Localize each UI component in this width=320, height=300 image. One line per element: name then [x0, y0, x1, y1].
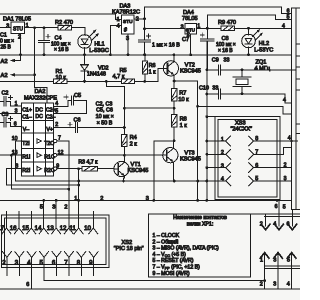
svg-text:3: 3	[52, 204, 55, 210]
wire bottom rail	[0, 288, 300, 290]
svg-text:2: 2	[2, 260, 6, 267]
capacitor C8	[206, 28, 208, 38]
XP1 pin 4 arrow	[278, 200, 280, 226]
wire DA4 out +5V	[197, 27, 222, 29]
svg-text:78L05: 78L05	[182, 16, 198, 22]
wire branch to DD1 pin	[198, 106, 292, 114]
wire DA2 pin7 drop	[54, 139, 57, 142]
wire XS2 pin5 rail	[44, 275, 265, 280]
LED HL2	[247, 27, 250, 30]
wire XS3 pin7 net	[254, 147, 292, 154]
svg-text:“24CXX”: “24CXX”	[231, 126, 253, 132]
svg-text:5 – RESET (AVR): 5 – RESET (AVR)	[153, 258, 194, 264]
svg-text:2: 2	[187, 32, 190, 38]
wire DA2 pin10	[16, 141, 22, 181]
svg-text:A2: A2	[1, 73, 8, 79]
XS2 top contact 15	[30, 211, 32, 228]
svg-text:C5, C6: C5, C6	[96, 108, 113, 114]
XS2 top contact 17	[6, 211, 8, 228]
XS2 bottom contact 5	[40, 252, 45, 258]
XP1 pin 3 arrow	[274, 253, 283, 259]
svg-text:R7: R7	[179, 91, 186, 97]
svg-text:#: #	[124, 27, 127, 33]
wire R7 R8 node	[124, 107, 174, 109]
svg-text:R1I: R1I	[22, 155, 30, 161]
socket XS2 PIC 18 pin	[2, 215, 109, 267]
svg-text:V+: V+	[46, 127, 53, 133]
wire DA2 pin13	[0, 154, 21, 156]
svg-text:1 мк × 16 В: 1 мк × 16 В	[152, 42, 180, 48]
svg-text:R3 4,7 к: R3 4,7 к	[78, 160, 98, 166]
XS3 row 2/7 contacts	[207, 153, 226, 155]
XP1 pin 6 arrow	[291, 210, 293, 226]
wire VT1 base	[114, 168, 118, 170]
svg-text:L-53GC: L-53GC	[89, 48, 109, 54]
transistor VT1 KSC945	[114, 161, 129, 176]
svg-text:STU: STU	[13, 27, 23, 33]
svg-text:2: 2	[100, 196, 103, 202]
XS2 bottom contact 6	[52, 252, 57, 258]
svg-text:7 – VPP (PIC, +12 В): 7 – VPP (PIC, +12 В)	[153, 265, 201, 271]
wire XS2 pin4 drop	[31, 275, 33, 288]
wire DA2 pin12	[54, 154, 57, 157]
svg-text:KSC945: KSC945	[180, 157, 201, 163]
wire A2 branch	[34, 28, 36, 88]
svg-text:9: 9	[89, 260, 93, 267]
svg-text:STU: STU	[123, 19, 133, 25]
svg-text:33: 33	[224, 58, 230, 64]
transistor VT3 KSC945	[163, 148, 178, 163]
transistor VT2 KSC945	[145, 68, 168, 81]
svg-text:6: 6	[275, 204, 278, 210]
svg-text:R9 470: R9 470	[218, 20, 236, 26]
svg-text:DC: DC	[35, 107, 43, 113]
wire net1 drop	[78, 169, 80, 228]
XS2 bottom contact 2	[2, 252, 7, 258]
svg-text:2 – Общий: 2 – Общий	[153, 238, 179, 245]
svg-text:6: 6	[26, 282, 29, 288]
svg-text:4: 4	[273, 221, 276, 227]
svg-text:5: 5	[287, 257, 290, 263]
wire rail railB	[0, 199, 292, 201]
wire ground rail	[0, 54, 292, 56]
svg-text:6: 6	[14, 122, 17, 128]
svg-text:4: 4	[288, 136, 291, 142]
svg-text:R6: R6	[149, 63, 156, 69]
wire DA3 out +12V	[134, 18, 144, 20]
svg-text:3 – MISO (AVR), DATA (PIC): 3 – MISO (AVR), DATA (PIC)	[153, 246, 220, 252]
svg-text:4: 4	[282, 23, 285, 29]
wire +5V to pin5	[207, 15, 291, 28]
svg-text:3: 3	[284, 176, 287, 182]
svg-text:ZQ1: ZQ1	[256, 59, 267, 65]
wire XS3 pin8 net	[254, 140, 298, 142]
svg-text:C3: C3	[2, 112, 9, 118]
svg-text:6: 6	[52, 260, 56, 267]
capacitor C4	[43, 28, 45, 40]
svg-text:VT3: VT3	[184, 150, 194, 156]
svg-text:10: 10	[84, 225, 91, 232]
wire +12V input rail	[0, 14, 122, 19]
wire crystal net to XP	[242, 94, 292, 103]
wire DA3 pin4	[110, 25, 121, 55]
svg-text:C1+: C1+	[22, 107, 32, 113]
svg-text:4: 4	[283, 98, 286, 104]
XS2 top contact 13	[55, 211, 57, 228]
svg-text:17: 17	[0, 225, 5, 232]
svg-text:C2+: C2+	[46, 107, 56, 113]
svg-text:Назначение контактов: Назначение контактов	[173, 215, 227, 221]
resistor R4 2k	[123, 128, 125, 135]
svg-text:4 МГц: 4 МГц	[255, 66, 271, 72]
wire DA3 to DA4	[145, 19, 186, 29]
svg-text:2 к: 2 к	[130, 142, 138, 148]
IC DD1 cropped box	[292, 7, 301, 9]
XS2 bottom contact 4	[27, 252, 32, 258]
svg-text:2: 2	[64, 204, 67, 210]
svg-text:DC: DC	[35, 114, 43, 120]
svg-text:3: 3	[6, 23, 9, 29]
wire rail r2	[6, 169, 78, 185]
diode VD2 1N4148	[83, 53, 86, 56]
svg-text:2: 2	[260, 221, 263, 227]
svg-text:8: 8	[77, 260, 81, 267]
svg-text:вилки ХР1:: вилки ХР1:	[187, 221, 214, 227]
note box XP1 pinout	[149, 213, 300, 215]
svg-text:2: 2	[55, 122, 58, 128]
wire net5 drop to XS2 pin13	[55, 200, 57, 228]
svg-text:1 к: 1 к	[180, 123, 188, 129]
svg-text:“PIC 18 pin”: “PIC 18 pin”	[114, 246, 144, 252]
svg-text:3: 3	[15, 109, 18, 115]
svg-text:4: 4	[287, 281, 290, 287]
svg-text:4 – VCC (+5 В): 4 – VCC (+5 В)	[153, 252, 187, 258]
svg-text:2: 2	[260, 281, 263, 287]
svg-text:25 В: 25 В	[1, 44, 12, 50]
svg-text:1N4148: 1N4148	[87, 72, 106, 78]
svg-text:5: 5	[287, 15, 290, 21]
svg-text:× 50 В: × 50 В	[97, 120, 113, 126]
svg-text:4: 4	[221, 177, 224, 183]
svg-text:5: 5	[55, 109, 58, 115]
svg-text:2: 2	[221, 150, 224, 156]
svg-text:33: 33	[212, 85, 218, 91]
svg-text:7: 7	[64, 260, 68, 267]
svg-text:KSC945: KSC945	[128, 168, 149, 174]
net A2 lower arrow	[15, 74, 35, 76]
svg-text:3: 3	[221, 163, 224, 169]
svg-text:1: 1	[117, 17, 120, 23]
svg-text:R2I: R2I	[22, 168, 30, 174]
XS3 row 3/6 contacts	[207, 167, 226, 169]
XS3 row 1/8 contacts	[207, 140, 226, 142]
svg-text:16: 16	[10, 225, 17, 232]
svg-text:5: 5	[40, 204, 43, 210]
wire V+ dogleg	[106, 81, 124, 108]
svg-text:R8: R8	[180, 116, 187, 122]
svg-text:4: 4	[117, 23, 120, 29]
XS2 top contact 10	[92, 211, 94, 228]
svg-text:14: 14	[35, 225, 42, 232]
svg-text:VT1: VT1	[131, 162, 141, 168]
wire XS3 pin5 net	[254, 180, 292, 182]
svg-text:11: 11	[69, 225, 76, 232]
LED HL1	[84, 28, 86, 36]
svg-text:1: 1	[74, 196, 77, 202]
wire rail r1	[16, 180, 216, 182]
svg-text:1: 1	[15, 101, 18, 107]
XP1 pin 2 arrow	[265, 214, 267, 226]
XS2 bottom contact 8	[77, 252, 82, 258]
wire gnd vertical	[206, 41, 208, 200]
XS2 bottom contact 9	[89, 252, 94, 258]
wire net3 drop	[154, 141, 174, 201]
DD1 pin field dashes	[296, 43, 300, 45]
svg-text:C2–: C2–	[46, 114, 56, 120]
svg-text:3: 3	[181, 25, 184, 31]
wire DA2 pin9	[54, 167, 57, 170]
XS2 top contact 11	[78, 211, 80, 228]
net A2 upper arrow	[20, 34, 22, 61]
svg-text:3: 3	[273, 257, 276, 263]
svg-text:5: 5	[40, 260, 44, 267]
XS3 row 4/5 contacts	[207, 180, 226, 182]
resistor R8 1k	[173, 108, 175, 114]
wire rail r3	[11, 155, 68, 189]
svg-text:12: 12	[60, 225, 67, 232]
svg-text:HL1: HL1	[94, 41, 104, 47]
svg-text:C10: C10	[199, 85, 209, 91]
svg-text:KSC945: KSC945	[180, 68, 201, 74]
svg-text:2: 2	[284, 162, 287, 168]
svg-text:C1–: C1–	[22, 114, 32, 120]
wire DA2 pin3	[0, 113, 21, 115]
wire VT2 emitter net	[174, 81, 198, 200]
svg-text:1: 1	[260, 257, 263, 263]
XS2 top contact 16	[18, 211, 20, 228]
svg-text:3: 3	[146, 196, 149, 202]
XS2 bottom contact 7	[64, 252, 69, 258]
svg-text:6: 6	[287, 8, 290, 14]
svg-text:1 к: 1 к	[149, 70, 156, 76]
svg-text:MAX232CPE: MAX232CPE	[24, 96, 57, 102]
XP1 pin 1 arrow	[260, 253, 269, 259]
svg-text:× 16 В: × 16 В	[218, 48, 233, 54]
svg-text:2: 2	[136, 16, 139, 22]
capacitor C7	[144, 29, 146, 40]
svg-text:15: 15	[22, 225, 29, 232]
svg-text:3: 3	[15, 260, 19, 267]
XS2 bottom contact 3	[15, 252, 19, 258]
resistor R7 10k	[173, 81, 175, 89]
svg-text:C2: C2	[2, 91, 9, 97]
svg-text:C5: C5	[74, 93, 81, 99]
resistor R6 1k	[144, 55, 146, 61]
svg-text:R4: R4	[130, 135, 137, 141]
svg-text:4: 4	[55, 101, 58, 107]
svg-text:9 – MOSI (AVR): 9 – MOSI (AVR)	[153, 271, 190, 277]
wire DA1 out	[25, 27, 58, 29]
svg-text:R5: R5	[120, 68, 127, 74]
svg-text:10 мк ×: 10 мк ×	[96, 114, 114, 120]
wire DA2 pin8	[6, 168, 21, 170]
svg-text:HL2: HL2	[259, 41, 269, 47]
wire DA3 pin3 gnd	[127, 34, 129, 55]
svg-text:DA2: DA2	[35, 89, 46, 95]
svg-text:× 16 В: × 16 В	[54, 47, 69, 53]
svg-text:T2O: T2O	[44, 141, 54, 147]
svg-text:10 к: 10 к	[178, 97, 189, 103]
svg-text:13: 13	[47, 225, 54, 232]
wire XS3 pin6 net	[254, 167, 292, 169]
svg-text:C2, C3: C2, C3	[96, 101, 113, 107]
svg-text:T2I: T2I	[22, 141, 30, 147]
svg-text:A2: A2	[1, 59, 8, 65]
XP1 pin 5 arrow	[287, 253, 296, 259]
XS2 top contact 14	[43, 211, 45, 228]
svg-text:3: 3	[273, 281, 276, 287]
svg-text:1: 1	[221, 137, 224, 143]
svg-text:C9: C9	[212, 58, 219, 64]
connector XP1 even row rail	[265, 215, 300, 217]
wire DA1 input	[0, 27, 11, 29]
wire reset net	[124, 154, 167, 156]
svg-text:6: 6	[287, 221, 290, 227]
connector XP1 odd row rails	[265, 265, 300, 267]
svg-text:10: 10	[12, 136, 18, 142]
svg-text:1 – CLOCK: 1 – CLOCK	[153, 233, 180, 239]
svg-text:L-53YC: L-53YC	[254, 48, 273, 54]
svg-text:4: 4	[27, 260, 31, 267]
svg-text:5: 5	[283, 204, 286, 210]
XS2 top contact 12	[68, 211, 70, 228]
svg-text:V–: V–	[23, 127, 29, 133]
wire DA4 pin2 gnd	[190, 34, 192, 55]
svg-text:8: 8	[15, 164, 18, 170]
